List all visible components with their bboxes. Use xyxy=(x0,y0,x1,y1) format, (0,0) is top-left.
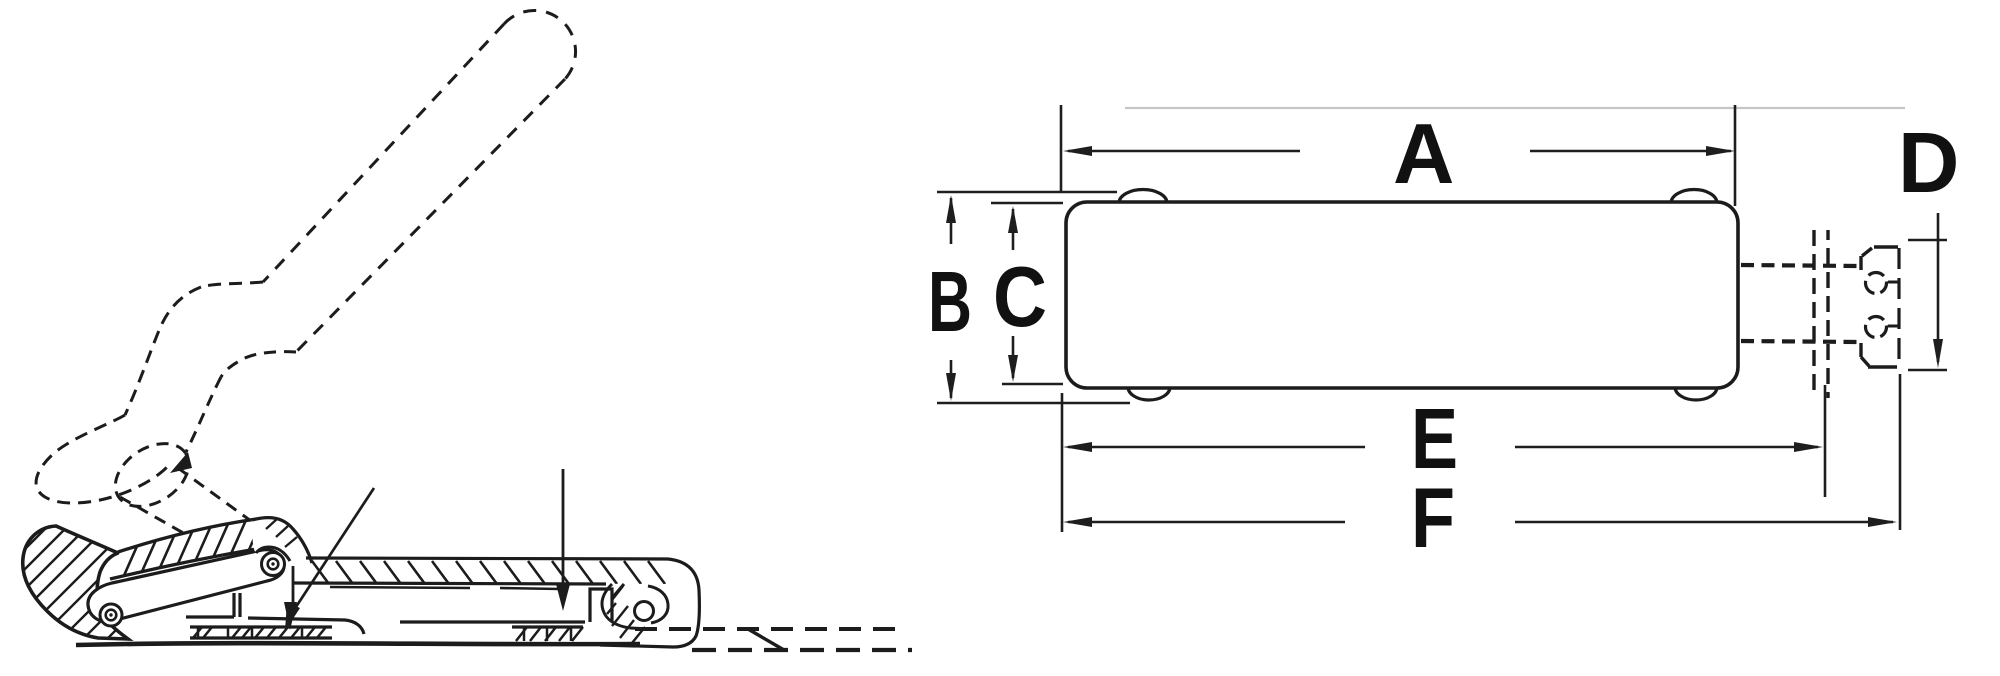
ground line xyxy=(76,643,640,645)
hook hole lower tick xyxy=(1888,325,1898,328)
dim B bottom arrow stem xyxy=(950,360,953,398)
svg-text:B: B xyxy=(928,255,972,350)
cross pin dashed left xyxy=(1812,230,1815,398)
dim E left arrowhead xyxy=(1063,442,1092,452)
shaft hatching xyxy=(122,516,264,580)
mounting bump bottom-left xyxy=(1128,387,1170,400)
dim A right extension line xyxy=(1734,105,1737,206)
dim E line left segment xyxy=(1068,446,1365,449)
hidden catch dashes lower xyxy=(692,648,912,652)
dim A left arrowhead xyxy=(1063,146,1092,156)
dim E right arrowhead xyxy=(1794,442,1823,452)
pointer arrow vertical head xyxy=(284,602,297,630)
dim E right extension line xyxy=(1824,385,1827,497)
latch body top view xyxy=(1066,202,1738,388)
pointer arrow diagonal head xyxy=(285,602,300,631)
open handle dashed outline: top cap xyxy=(504,10,576,79)
svg-text:F: F xyxy=(1411,471,1455,566)
dim F right extension line xyxy=(1899,374,1902,530)
dim A right arrowhead xyxy=(1706,146,1735,156)
dim B bottom extension line xyxy=(937,402,1130,405)
open handle lower left edge xyxy=(125,287,201,415)
dim D top extension tick xyxy=(1908,239,1947,242)
hidden catch dashes upper xyxy=(635,627,905,631)
keeper base plate top edge xyxy=(186,593,585,634)
lever shaft band xyxy=(112,519,266,578)
open handle rotation arrowhead xyxy=(170,452,192,473)
dim B bottom arrowhead xyxy=(946,373,956,401)
pointer arrow diagonal xyxy=(290,488,374,616)
hidden catch diagonal dash xyxy=(748,629,784,650)
lever nose xyxy=(252,518,312,563)
dim C top arrow stem xyxy=(1012,209,1015,250)
hook hole lower xyxy=(1866,317,1887,338)
open handle end loop xyxy=(36,415,168,503)
strap bottom doubled edge xyxy=(330,587,560,589)
dim A line left segment xyxy=(1068,150,1300,153)
keeper hatched strip left outline xyxy=(190,627,332,638)
open handle right bump xyxy=(221,352,296,377)
dim B top extension line xyxy=(937,191,1117,194)
dim D bottom extension tick xyxy=(1908,369,1947,372)
pointer arrow vertical xyxy=(292,566,295,612)
strap hidden line lower xyxy=(1741,341,1860,342)
dim D line xyxy=(1937,213,1940,362)
pivot pin 1 outer xyxy=(100,604,122,626)
dim F right arrowhead xyxy=(1868,517,1897,527)
pointer arrow vertical mid xyxy=(562,469,565,600)
keeper hatched strip right outline xyxy=(512,625,583,628)
cross pin dashed right xyxy=(1826,230,1829,398)
dim B top arrow stem xyxy=(950,198,953,244)
dim C top arrowhead xyxy=(1008,206,1018,233)
dim F left arrowhead xyxy=(1063,517,1092,527)
faint scan line xyxy=(1125,107,1905,109)
dim D arrowhead xyxy=(1933,339,1943,368)
open handle pivot end ellipse xyxy=(104,431,201,520)
mounting bump top-right xyxy=(1671,190,1717,204)
keeper lip xyxy=(590,589,612,622)
hook hole upper tick xyxy=(1888,281,1898,284)
pivot pin 2 inner xyxy=(268,559,279,570)
dim A line right segment xyxy=(1530,150,1731,153)
connector dashes to grip xyxy=(120,497,208,547)
dim C top extension line xyxy=(991,202,1063,205)
open handle dashed left edge xyxy=(263,24,504,282)
hook hole upper xyxy=(1866,273,1887,294)
dim B top arrowhead xyxy=(946,195,956,223)
pivot pin 2 outer xyxy=(262,553,285,576)
strap hatching xyxy=(312,561,665,584)
strap end cavity xyxy=(602,584,668,629)
dim A left extension line xyxy=(1060,105,1063,191)
strap hidden line upper xyxy=(1741,265,1860,266)
strap band xyxy=(294,558,699,647)
dim E line right segment xyxy=(1515,446,1818,449)
lever grip xyxy=(23,526,128,639)
open handle dashed right edge xyxy=(296,79,565,352)
strap end small circle xyxy=(635,602,654,621)
dim C bottom arrow stem xyxy=(1012,336,1015,378)
mounting bump top-left xyxy=(1119,190,1167,204)
link side plate xyxy=(88,550,284,622)
dimension lines xyxy=(937,105,1947,532)
dim E/F left extension line xyxy=(1061,393,1064,532)
dim C bottom arrowhead xyxy=(1008,355,1018,382)
hook end piece outline xyxy=(1874,245,1898,248)
dim F line right segment xyxy=(1515,521,1893,524)
svg-text:C: C xyxy=(993,250,1047,345)
keeper hatch left xyxy=(193,627,583,641)
dim F line left segment xyxy=(1068,521,1345,524)
svg-text:D: D xyxy=(1898,116,1959,211)
open-to-closed connector dashes xyxy=(178,468,262,529)
pivot pin 1 inner xyxy=(106,610,117,621)
open handle right lower edge xyxy=(186,377,221,452)
mounting bump bottom-right xyxy=(1675,387,1717,400)
open handle shoulder step xyxy=(201,282,263,287)
grip hatching xyxy=(0,486,172,676)
dim C bottom extension line xyxy=(1002,383,1063,386)
strap end hatch xyxy=(607,586,645,643)
svg-text:A: A xyxy=(1393,107,1454,202)
